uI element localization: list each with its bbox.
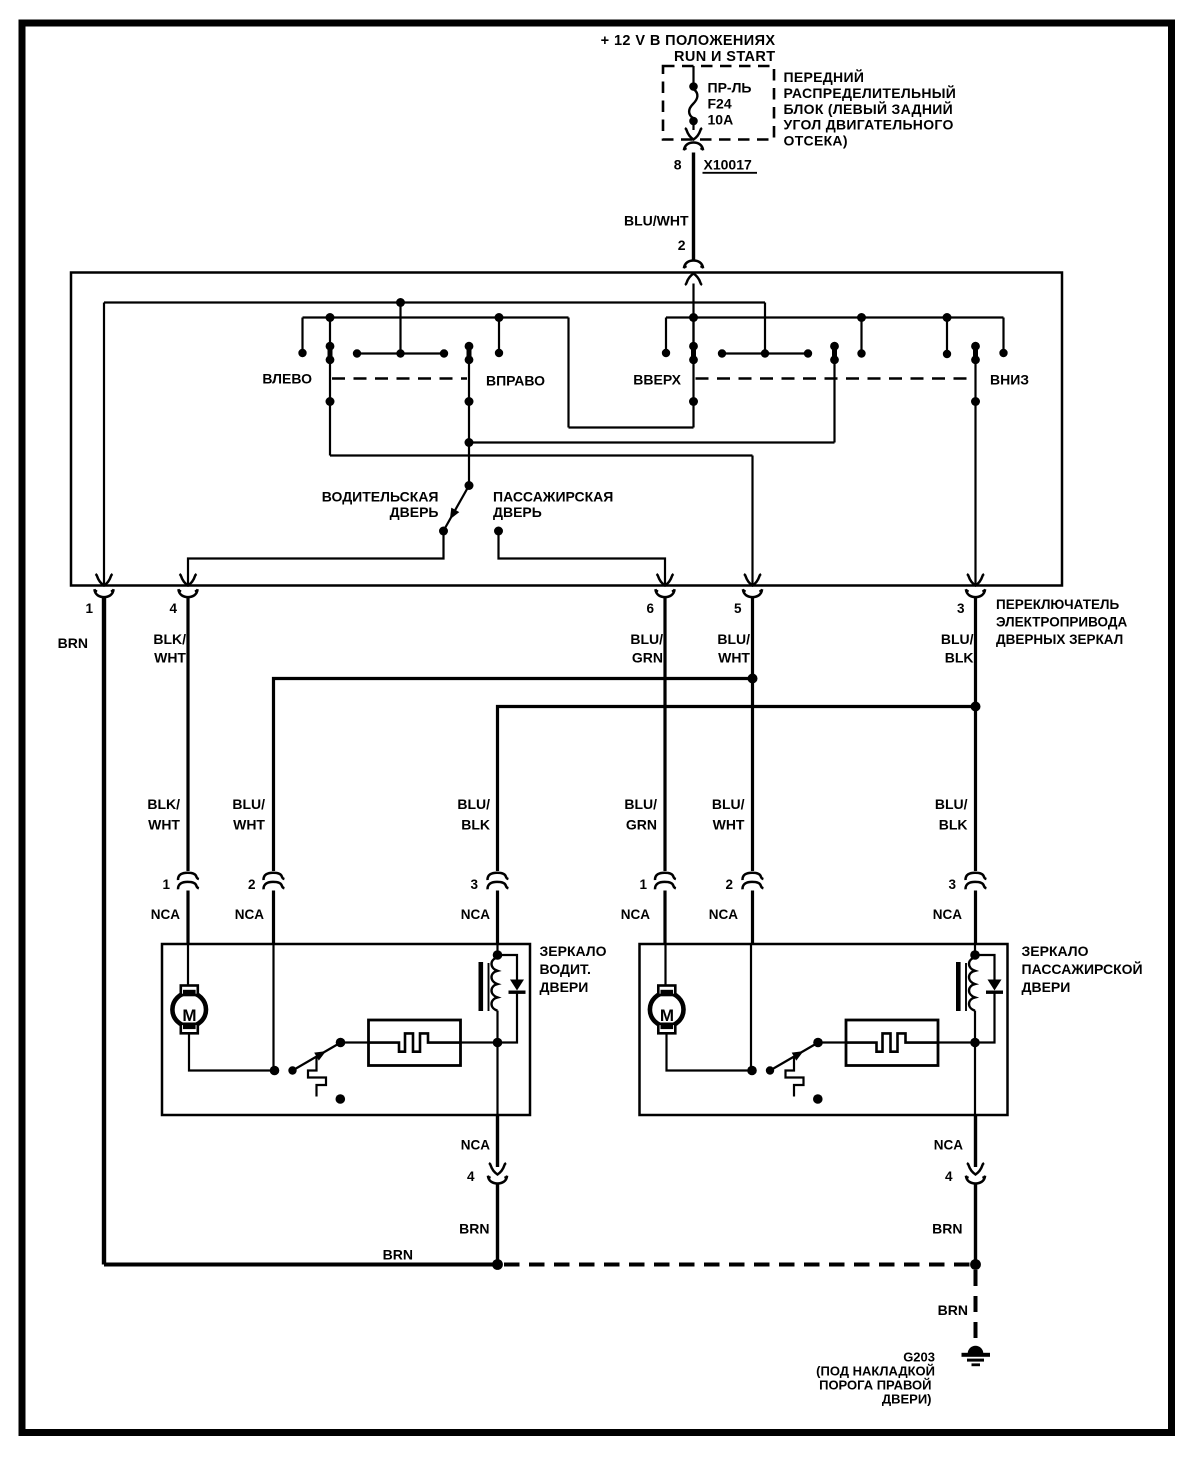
svg-text:BLK: BLK <box>461 817 490 833</box>
connector pin 2 into switch <box>684 261 703 269</box>
wire mirror output passenger <box>974 1115 977 1167</box>
stepped contact passenger <box>786 1056 804 1097</box>
wire BLU/GRN column <box>663 598 666 872</box>
svg-text:NCA: NCA <box>709 907 738 922</box>
svg-text:GRN: GRN <box>632 650 663 666</box>
connector mirror pin 1 <box>655 873 676 880</box>
diode passenger <box>975 955 995 980</box>
wire rail A common <box>104 301 765 303</box>
svg-text:+ 12 V В ПОЛОЖЕНИЯХ: + 12 V В ПОЛОЖЕНИЯХ <box>601 33 776 49</box>
wire BRN ground run dashed <box>504 1263 976 1267</box>
connector X10017 <box>684 143 703 151</box>
svg-text:BLU/: BLU/ <box>232 796 265 812</box>
svg-text:1: 1 <box>162 877 170 892</box>
svg-text:ПОРОГА ПРАВОЙ: ПОРОГА ПРАВОЙ <box>819 1378 931 1393</box>
wire mirror output driver <box>496 1115 499 1167</box>
connector mirror pin 2 <box>742 873 763 880</box>
svg-text:8: 8 <box>674 157 682 173</box>
svg-text:ВНИЗ: ВНИЗ <box>990 372 1029 388</box>
wire BRN to ground dashed <box>974 1270 978 1343</box>
switch bar VVERH <box>692 318 694 345</box>
svg-text:BLU/: BLU/ <box>457 796 490 812</box>
svg-text:NCA: NCA <box>235 907 264 922</box>
svg-text:WHT: WHT <box>713 817 745 833</box>
svg-text:BRN: BRN <box>932 1221 962 1237</box>
ground G203 <box>968 1346 984 1354</box>
svg-text:BRN: BRN <box>938 1302 968 1318</box>
connector mirror pin 3 <box>487 873 508 880</box>
svg-text:ЗЕРКАЛО: ЗЕРКАЛО <box>540 943 607 959</box>
svg-text:ПР-ЛЬ: ПР-ЛЬ <box>708 80 752 96</box>
svg-text:RUN И START: RUN И START <box>674 49 776 65</box>
switch bar VNIZ <box>973 344 978 363</box>
mirror box driver <box>162 944 530 1115</box>
connector pin 4 switch bottom <box>180 574 197 586</box>
connector mirror pin 3 <box>965 873 986 880</box>
wire BLU/WHT feed <box>692 153 695 260</box>
svg-text:3: 3 <box>470 877 478 892</box>
dashed link left <box>332 377 467 380</box>
svg-text:ВПРАВО: ВПРАВО <box>486 373 545 389</box>
svg-text:WHT: WHT <box>148 817 180 833</box>
svg-text:NCA: NCA <box>621 907 650 922</box>
svg-text:ПАССАЖИРСКАЯ: ПАССАЖИРСКАЯ <box>493 489 613 505</box>
wire BLU/WHT branch to driver pin2 <box>751 598 754 872</box>
svg-text:10A: 10A <box>708 112 734 128</box>
connector mirror pin 1 <box>178 873 199 880</box>
wire BRN ground run solid <box>104 1263 498 1267</box>
svg-text:G203: G203 <box>903 1350 935 1365</box>
switch bar mid-right <box>832 344 837 363</box>
svg-text:NCA: NCA <box>151 907 180 922</box>
svg-text:ПАССАЖИРСКОЙ: ПАССАЖИРСКОЙ <box>1022 960 1143 977</box>
svg-text:WHT: WHT <box>718 650 750 666</box>
svg-text:ДВЕРНЫХ ЗЕРКАЛ: ДВЕРНЫХ ЗЕРКАЛ <box>996 632 1123 647</box>
connector pin 5 switch bottom <box>744 574 761 586</box>
svg-text:ДВЕРЬ: ДВЕРЬ <box>493 504 542 520</box>
svg-text:X10017: X10017 <box>704 157 752 173</box>
svg-text:ВВЕРХ: ВВЕРХ <box>633 372 681 388</box>
contact row left section <box>353 349 361 357</box>
driver door selector switch <box>465 481 474 490</box>
wire BRN left column <box>102 598 106 1265</box>
svg-text:NCA: NCA <box>934 1138 963 1153</box>
solenoid coil driver <box>496 944 498 954</box>
svg-text:УГОЛ ДВИГАТЕЛЬНОГО: УГОЛ ДВИГАТЕЛЬНОГО <box>784 117 954 133</box>
svg-text:ДВЕРИ: ДВЕРИ <box>1022 979 1071 995</box>
switch bar VLEVO <box>329 318 331 345</box>
diode driver <box>498 955 518 980</box>
svg-text:3: 3 <box>957 601 965 616</box>
svg-text:WHT: WHT <box>233 817 265 833</box>
motor M passenger <box>650 993 684 1027</box>
contact row right section <box>718 349 726 357</box>
svg-text:БЛОК (ЛЕВЫЙ ЗАДНИЙ: БЛОК (ЛЕВЫЙ ЗАДНИЙ <box>784 100 953 117</box>
svg-text:BRN: BRN <box>58 635 88 651</box>
svg-text:BLK: BLK <box>939 817 968 833</box>
svg-text:NCA: NCA <box>461 1138 490 1153</box>
feedback resistor driver <box>369 1020 461 1066</box>
svg-text:BLU/: BLU/ <box>712 796 745 812</box>
svg-text:ДВЕРИ): ДВЕРИ) <box>882 1392 932 1407</box>
connector pin 1 switch bottom <box>96 574 113 586</box>
svg-text:F24: F24 <box>708 96 732 112</box>
svg-text:ПЕРЕДНИЙ: ПЕРЕДНИЙ <box>784 68 865 85</box>
solenoid coil passenger <box>974 944 976 954</box>
svg-text:M: M <box>182 1006 196 1025</box>
svg-text:NCA: NCA <box>933 907 962 922</box>
svg-text:2: 2 <box>678 237 686 253</box>
mirror selector arm passenger <box>750 944 752 1071</box>
svg-text:4: 4 <box>467 1169 475 1184</box>
svg-text:2: 2 <box>248 877 256 892</box>
wire UP-bar to railB link <box>567 318 569 428</box>
svg-text:BLU/: BLU/ <box>717 631 750 647</box>
wire BLK/WHT column <box>186 598 189 872</box>
front power distribution box (dashed) <box>663 66 774 140</box>
svg-text:1: 1 <box>639 877 647 892</box>
svg-text:ПЕРЕКЛЮЧАТЕЛЬ: ПЕРЕКЛЮЧАТЕЛЬ <box>996 597 1119 612</box>
svg-text:ВОДИТ.: ВОДИТ. <box>540 961 591 977</box>
svg-text:BRN: BRN <box>383 1247 413 1263</box>
svg-text:ЭЛЕКТРОПРИВОДА: ЭЛЕКТРОПРИВОДА <box>996 615 1127 630</box>
connector pin 6 switch bottom <box>657 574 674 586</box>
stepped contact driver <box>308 1056 326 1097</box>
svg-text:BLK: BLK <box>945 650 974 666</box>
mirror switch box <box>71 273 1062 586</box>
wire rail B right <box>666 316 1004 318</box>
fuse F24 10A <box>692 66 694 83</box>
dashed link right <box>696 377 973 380</box>
svg-text:ЗЕРКАЛО: ЗЕРКАЛО <box>1022 943 1089 959</box>
svg-text:GRN: GRN <box>626 817 657 833</box>
svg-text:BLU/: BLU/ <box>935 796 968 812</box>
wire BLU/BLK branch to driver pin3 <box>974 598 977 872</box>
svg-text:M: M <box>660 1006 674 1025</box>
svg-text:BLU/: BLU/ <box>624 796 657 812</box>
svg-text:(ПОД НАКЛАДКОЙ: (ПОД НАКЛАДКОЙ <box>816 1364 935 1379</box>
svg-text:2: 2 <box>725 877 733 892</box>
svg-text:BLU/: BLU/ <box>630 631 663 647</box>
wire VLEVO to pin5 <box>330 454 753 456</box>
svg-text:3: 3 <box>948 877 956 892</box>
svg-text:BLK/: BLK/ <box>153 631 186 647</box>
svg-text:4: 4 <box>169 601 177 616</box>
svg-text:6: 6 <box>646 601 654 616</box>
mirror selector arm driver <box>272 944 274 1071</box>
svg-text:ДВЕРИ: ДВЕРИ <box>540 979 589 995</box>
connector pin 3 switch bottom <box>967 574 984 586</box>
svg-text:1: 1 <box>85 601 93 616</box>
connector mirror pin 2 <box>263 873 284 880</box>
switch bar VPRAVO <box>467 344 472 363</box>
motor M driver <box>172 993 206 1027</box>
feedback resistor passenger <box>846 1020 938 1066</box>
svg-text:BRN: BRN <box>459 1221 489 1237</box>
svg-text:4: 4 <box>945 1169 953 1184</box>
wire rail B left <box>303 316 569 318</box>
wire VPRAVO crosslink <box>469 441 835 443</box>
passenger door contact <box>494 527 503 536</box>
svg-text:РАСПРЕДЕЛИТЕЛЬНЫЙ: РАСПРЕДЕЛИТЕЛЬНЫЙ <box>784 84 957 101</box>
svg-text:5: 5 <box>734 601 742 616</box>
svg-text:ОТСЕКА): ОТСЕКА) <box>784 133 848 149</box>
svg-text:BLK/: BLK/ <box>147 796 180 812</box>
svg-text:BLU/WHT: BLU/WHT <box>624 213 689 229</box>
svg-text:ДВЕРЬ: ДВЕРЬ <box>390 504 439 520</box>
svg-text:BLU/: BLU/ <box>941 631 974 647</box>
svg-text:ВЛЕВО: ВЛЕВО <box>262 371 312 387</box>
svg-text:ВОДИТЕЛЬСКАЯ: ВОДИТЕЛЬСКАЯ <box>322 489 439 505</box>
svg-text:NCA: NCA <box>461 907 490 922</box>
svg-text:WHT: WHT <box>154 650 186 666</box>
mirror box passenger <box>640 944 1008 1115</box>
